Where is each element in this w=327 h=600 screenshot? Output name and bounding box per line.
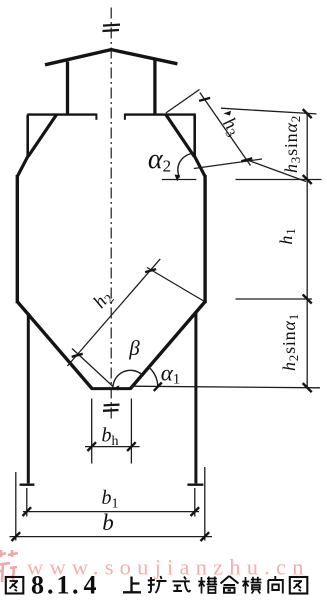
svg-text:8.1.4: 8.1.4 [31,571,97,600]
svg-text:h2sinα1: h2sinα1 [279,313,301,371]
svg-text:b: b [102,510,114,535]
svg-text:β: β [128,336,140,360]
svg-text:h3sinα2: h3sinα2 [281,115,303,173]
